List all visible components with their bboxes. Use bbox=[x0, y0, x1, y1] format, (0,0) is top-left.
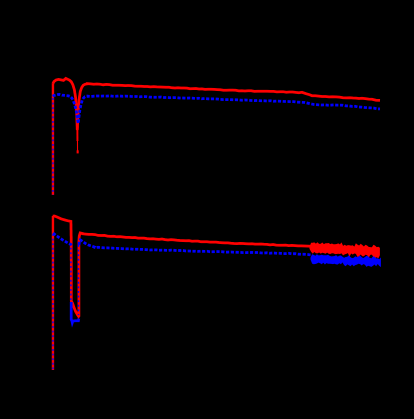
bottom panel blue curve left of dip (dashed) bbox=[53, 233, 71, 246]
bottom panel blue dashes on start transient bbox=[52, 234, 54, 370]
top panel blue dashes on start transient bbox=[52, 98, 54, 195]
bottom panel blue noisy tail band bbox=[311, 254, 381, 267]
top panel: red start transient vertical bbox=[52, 84, 54, 195]
bottom panel blue curve right of dip (dashed) bbox=[79, 240, 311, 255]
bottom panel blue dip floor bbox=[71, 302, 79, 323]
top panel red dip end marker bbox=[77, 150, 79, 153]
top panel blue curve (dashed) bbox=[53, 94, 380, 123]
bottom panel red curve bbox=[53, 216, 311, 316]
top panel red dip thin tip bbox=[76, 140, 78, 152]
bottom panel: red start transient vertical bbox=[52, 216, 54, 370]
bottom dip: blue dashes over red rising edge bbox=[78, 245, 80, 315]
top panel red curve bbox=[53, 78, 380, 130]
bottom dip: blue dashes over red falling edge bbox=[70, 243, 72, 301]
top panel red dip medium tip bbox=[76, 127, 78, 141]
bottom panel red noisy tail band bbox=[310, 242, 380, 258]
